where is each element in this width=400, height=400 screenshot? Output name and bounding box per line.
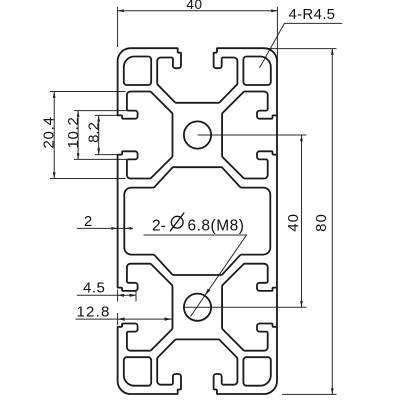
- svg-text:40: 40: [186, 0, 202, 12]
- corner chamber top-left: [124, 57, 151, 86]
- svg-text:20.4: 20.4: [41, 117, 58, 149]
- dim 2 wall dimension line: [77, 227, 133, 229]
- svg-text:12.8: 12.8: [77, 304, 111, 321]
- svg-text:6.8(M8): 6.8(M8): [188, 218, 245, 235]
- svg-text:8.2: 8.2: [85, 122, 102, 143]
- hole circle upper: [184, 121, 211, 148]
- dim 10.2 extension lines: [74, 111, 130, 160]
- dim 80 dimension line: [331, 49, 333, 395]
- dim 8.2 extension lines: [95, 115, 119, 154]
- svg-text:4.5: 4.5: [83, 280, 105, 297]
- dim 4.5 extension lines: [118, 290, 136, 302]
- dim 12.8 extension line: [117, 313, 119, 325]
- corner chamber top-right: [243, 57, 270, 86]
- dim 8.2 dimension line: [98, 115, 100, 154]
- central cavity: [124, 167, 270, 275]
- dim 40 top dimension line: [118, 10, 278, 12]
- dim 40 right dimension line: [301, 135, 303, 307]
- dim 40 top extension lines: [118, 7, 278, 61]
- hole circle lower: [184, 294, 211, 321]
- svg-text:4-R4.5: 4-R4.5: [289, 6, 336, 23]
- dim 12.8 dimension line: [76, 318, 172, 320]
- dim 4.5 dimension line: [77, 294, 136, 296]
- label 4-R4.5 leader: [260, 23, 343, 68]
- profile outer contour with T-slots: [118, 48, 277, 394]
- corner chamber bottom-right: [243, 357, 270, 386]
- svg-text:2: 2: [84, 213, 92, 230]
- label 2-dia6.8(M8) diameter symbol: [171, 216, 183, 228]
- dim 20.4 dimension line: [53, 92, 55, 179]
- svg-text:10.2: 10.2: [65, 117, 82, 149]
- svg-text:40: 40: [285, 213, 302, 232]
- dim 10.2 dimension line: [77, 111, 79, 160]
- svg-text:80: 80: [313, 213, 330, 232]
- dim 20.4 extension lines: [50, 92, 126, 179]
- dim 40 right extension lines: [184, 135, 307, 307]
- dim 80 extension lines: [264, 49, 337, 395]
- label 2-dia6.8(M8) leader: [144, 235, 247, 317]
- corner chamber bottom-left: [124, 357, 151, 386]
- svg-text:2-: 2-: [152, 218, 166, 235]
